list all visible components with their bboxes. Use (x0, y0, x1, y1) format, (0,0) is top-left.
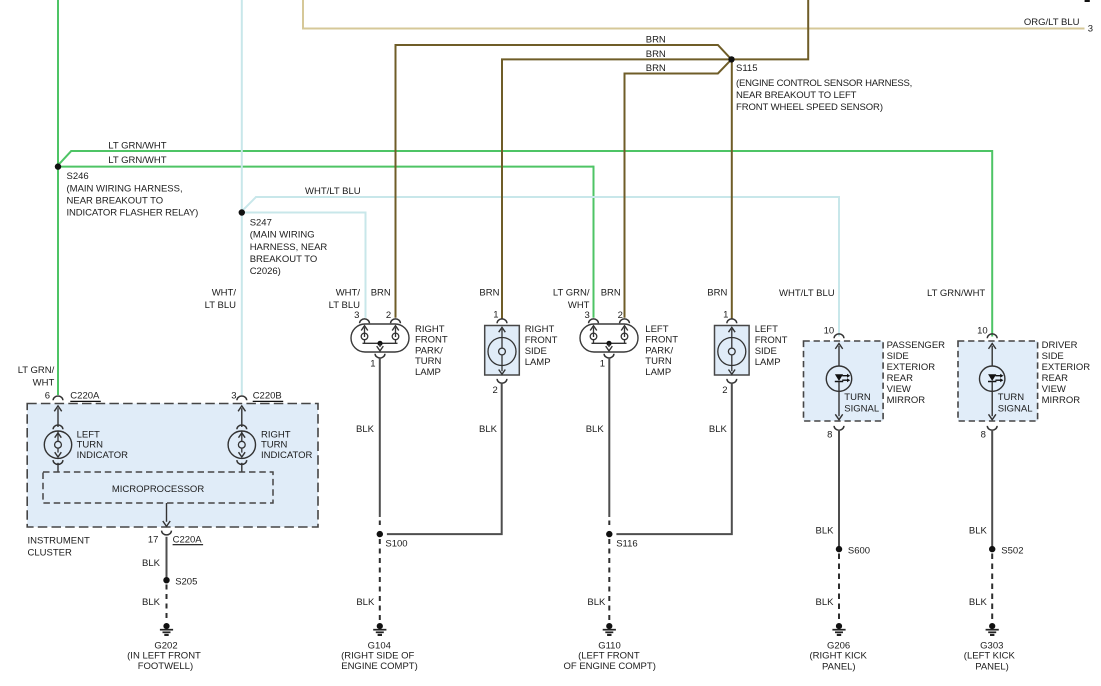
svg-text:LAMP: LAMP (645, 367, 671, 378)
svg-text:VIEW: VIEW (1042, 384, 1066, 395)
svg-text:TURN: TURN (415, 356, 442, 367)
svg-text:PASSENGER: PASSENGER (887, 340, 946, 351)
svg-text:RIGHT: RIGHT (525, 324, 555, 335)
svg-text:LEFT: LEFT (755, 324, 778, 335)
svg-text:(MAIN WIRING: (MAIN WIRING (250, 230, 315, 241)
svg-text:PANEL): PANEL) (975, 661, 1009, 672)
svg-text:3: 3 (585, 310, 590, 321)
svg-text:BREAKOUT TO: BREAKOUT TO (250, 254, 318, 265)
svg-text:LT GRN/: LT GRN/ (18, 365, 55, 376)
svg-text:BRN: BRN (479, 288, 499, 299)
svg-text:3: 3 (231, 391, 236, 402)
svg-text:FRONT: FRONT (525, 335, 558, 346)
svg-text:TURN: TURN (998, 392, 1025, 403)
svg-text:TURN: TURN (645, 356, 672, 367)
svg-text:1: 1 (600, 359, 605, 370)
svg-text:FRONT: FRONT (415, 335, 448, 346)
svg-text:10: 10 (977, 326, 988, 337)
svg-text:8: 8 (981, 430, 986, 441)
svg-text:LT GRN/WHT: LT GRN/WHT (108, 140, 166, 151)
svg-text:BRN: BRN (646, 63, 666, 74)
svg-text:LT GRN/: LT GRN/ (553, 288, 590, 299)
svg-text:6: 6 (45, 391, 50, 402)
svg-text:RIGHT: RIGHT (415, 324, 445, 335)
svg-text:C220A: C220A (173, 534, 203, 545)
svg-text:SIDE: SIDE (525, 346, 547, 357)
svg-text:BLK: BLK (479, 424, 498, 435)
svg-text:(LEFT KICK: (LEFT KICK (964, 651, 1016, 662)
svg-text:OF ENGINE COMPT): OF ENGINE COMPT) (564, 661, 656, 672)
svg-text:PARK/: PARK/ (415, 345, 443, 356)
svg-text:SIGNAL: SIGNAL (998, 403, 1033, 414)
svg-text:(MAIN WIRING HARNESS,: (MAIN WIRING HARNESS, (67, 183, 183, 194)
svg-text:BLK: BLK (816, 526, 835, 537)
svg-text:REAR: REAR (1042, 373, 1069, 384)
svg-text:BLK: BLK (587, 597, 606, 608)
svg-text:INDICATOR FLASHER RELAY): INDICATOR FLASHER RELAY) (67, 208, 199, 219)
svg-text:INDICATOR: INDICATOR (261, 450, 313, 461)
svg-text:(ENGINE CONTROL SENSOR HARNESS: (ENGINE CONTROL SENSOR HARNESS, (736, 78, 912, 89)
svg-text:LT GRN/WHT: LT GRN/WHT (927, 288, 985, 299)
svg-text:BLK: BLK (969, 526, 988, 537)
svg-text:2: 2 (386, 310, 391, 321)
svg-text:S205: S205 (175, 577, 197, 588)
svg-text:S115: S115 (736, 63, 757, 74)
svg-text:LT GRN/WHT: LT GRN/WHT (108, 155, 166, 166)
svg-text:MICROPROCESSOR: MICROPROCESSOR (112, 484, 205, 495)
svg-text:17: 17 (148, 534, 159, 545)
svg-text:REAR: REAR (887, 373, 914, 384)
svg-text:ENGINE COMPT): ENGINE COMPT) (341, 661, 418, 672)
svg-text:BLK: BLK (142, 597, 161, 608)
svg-text:C220A: C220A (70, 391, 100, 402)
svg-text:VIEW: VIEW (887, 384, 911, 395)
svg-text:FRONT WHEEL SPEED SENSOR): FRONT WHEEL SPEED SENSOR) (736, 102, 883, 113)
svg-text:BRN: BRN (707, 288, 727, 299)
svg-text:FOOTWELL): FOOTWELL) (138, 661, 193, 672)
svg-text:S116: S116 (616, 539, 637, 550)
svg-text:INSTRUMENT: INSTRUMENT (28, 535, 90, 546)
svg-text:FRONT: FRONT (645, 335, 678, 346)
svg-text:TURN: TURN (844, 392, 871, 403)
svg-text:MIRROR: MIRROR (887, 395, 926, 406)
svg-text:INDICATOR: INDICATOR (77, 450, 129, 461)
svg-text:HARNESS, NEAR: HARNESS, NEAR (250, 242, 328, 253)
svg-text:EXTERIOR: EXTERIOR (887, 362, 936, 373)
svg-text:LAMP: LAMP (415, 367, 441, 378)
svg-text:DRIVER: DRIVER (1042, 340, 1078, 351)
svg-text:LEFT: LEFT (645, 324, 668, 335)
svg-text:3: 3 (1088, 24, 1093, 35)
svg-text:MIRROR: MIRROR (1042, 395, 1081, 406)
svg-text:BLK: BLK (586, 424, 605, 435)
svg-text:PARK/: PARK/ (645, 345, 673, 356)
svg-text:CLUSTER: CLUSTER (28, 548, 72, 559)
svg-text:LAMP: LAMP (755, 357, 781, 368)
svg-text:10: 10 (824, 326, 835, 337)
svg-text:2: 2 (493, 385, 498, 396)
svg-text:FRONT: FRONT (755, 335, 788, 346)
svg-text:WHT/LT BLU: WHT/LT BLU (305, 186, 361, 197)
svg-text:BRN: BRN (646, 49, 666, 60)
svg-text:BLK: BLK (142, 558, 161, 569)
svg-text:NEAR BREAKOUT TO LEFT: NEAR BREAKOUT TO LEFT (736, 90, 857, 101)
svg-text:C2026): C2026) (250, 266, 281, 277)
svg-text:S100: S100 (385, 539, 407, 550)
svg-text:SIDE: SIDE (755, 346, 777, 357)
svg-text:1: 1 (723, 310, 728, 321)
svg-text:1: 1 (493, 310, 498, 321)
svg-text:2: 2 (722, 385, 727, 396)
svg-text:8: 8 (827, 430, 832, 441)
svg-text:(RIGHT KICK: (RIGHT KICK (810, 651, 868, 662)
svg-text:EXTERIOR: EXTERIOR (1042, 362, 1091, 373)
svg-text:WHT/: WHT/ (212, 288, 237, 299)
svg-text:S247: S247 (250, 218, 272, 229)
svg-text:C220B: C220B (253, 391, 282, 402)
svg-text:BLK: BLK (709, 424, 728, 435)
svg-text:BLK: BLK (969, 597, 988, 608)
svg-text:NEAR BREAKOUT TO: NEAR BREAKOUT TO (67, 195, 164, 206)
svg-text:S600: S600 (848, 546, 870, 557)
svg-text:BRN: BRN (646, 34, 666, 45)
svg-text:PANEL): PANEL) (822, 661, 856, 672)
svg-text:WHT/LT BLU: WHT/LT BLU (779, 288, 835, 299)
svg-text:(IN LEFT FRONT: (IN LEFT FRONT (127, 651, 201, 662)
svg-text:LAMP: LAMP (525, 357, 551, 368)
svg-text:SIDE: SIDE (1042, 351, 1064, 362)
svg-text:S246: S246 (67, 171, 89, 182)
svg-text:1: 1 (370, 359, 375, 370)
svg-text:BRN: BRN (371, 288, 391, 299)
svg-text:BLK: BLK (356, 597, 375, 608)
svg-text:3: 3 (354, 310, 359, 321)
svg-text:LT BLU: LT BLU (205, 300, 236, 311)
svg-text:WHT/: WHT/ (336, 288, 361, 299)
svg-text:SIGNAL: SIGNAL (844, 403, 879, 414)
svg-text:(RIGHT SIDE OF: (RIGHT SIDE OF (341, 651, 414, 662)
svg-text:S502: S502 (1001, 546, 1023, 557)
svg-text:(LEFT FRONT: (LEFT FRONT (578, 651, 640, 662)
svg-text:ORG/LT BLU: ORG/LT BLU (1024, 17, 1080, 28)
svg-text:BLK: BLK (816, 597, 835, 608)
svg-text:SIDE: SIDE (887, 351, 909, 362)
svg-text:BLK: BLK (356, 424, 375, 435)
svg-text:WHT: WHT (33, 377, 55, 388)
svg-text:BRN: BRN (601, 288, 621, 299)
